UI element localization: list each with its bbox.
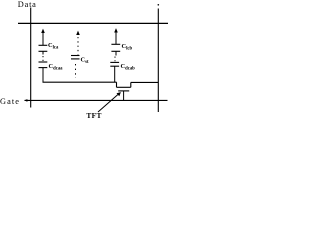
capacitor Cdcab: [110, 61, 119, 63]
wire TFT source to next data line: [131, 81, 159, 83]
wire dotted link Cst to node: [75, 64, 77, 78]
wire gate line (horizontal): [24, 99, 27, 102]
capacitor Clcb arrow lead: [115, 31, 117, 45]
transistor TFT gate stem: [123, 91, 125, 101]
capacitor Clca arrow lead: [42, 31, 44, 45]
transistor TFT gate bar: [118, 90, 129, 92]
wire TFT pointer arrow: [98, 94, 119, 112]
wire Data line (vertical): [30, 8, 32, 108]
wire dotted link Clcb to Cdcab: [114, 57, 116, 62]
transistor TFT source rise: [130, 82, 132, 87]
svg-text:Gate: Gate: [0, 97, 20, 106]
wire pixel node line: [43, 81, 117, 83]
capacitor Clca: [39, 44, 48, 46]
capacitor Cdcaa: [39, 61, 48, 63]
capacitor Clcb: [111, 43, 120, 45]
capacitor Cst: [71, 55, 80, 57]
wire dotted link Clca to Cdcaa: [42, 56, 44, 61]
wire next data line (vertical, right): [158, 4, 160, 6]
capacitor Cst dotted arrow lead: [76, 31, 80, 35]
svg-text:TFT: TFT: [86, 111, 101, 120]
transistor TFT drain drop: [116, 82, 118, 87]
svg-text:Data: Data: [18, 0, 37, 9]
transistor TFT channel bar: [117, 86, 131, 88]
wire top horizontal line (common): [18, 22, 168, 24]
